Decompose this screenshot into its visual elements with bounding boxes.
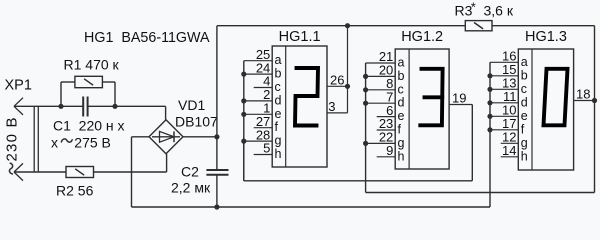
svg-text:d: d <box>398 96 405 110</box>
HG1.3 letter/digit divider <box>531 49 533 170</box>
svg-text:HG1.3: HG1.3 <box>525 29 567 45</box>
svg-text:3,6 к: 3,6 к <box>484 3 514 19</box>
XP1 pin 2 (bottom plug pin arrow) <box>14 163 23 180</box>
wire bottom mains from R2 to bridge bottom <box>94 171 167 173</box>
svg-text:h: h <box>521 149 528 163</box>
wire bridge top corner to mains top wire <box>165 106 167 120</box>
node HG1.1 pin 28 junction <box>241 139 246 144</box>
svg-text:5: 5 <box>263 141 270 156</box>
svg-text:c: c <box>275 80 281 94</box>
svg-text:3: 3 <box>328 99 335 114</box>
wire pins 26,3 common up to top bus <box>347 26 349 113</box>
HG1.1 pin 24 segment b wire <box>244 73 272 75</box>
capacitor C1 <box>83 97 87 117</box>
node HG1.1 pin 1 junction <box>241 112 246 117</box>
HG1.2 pin 19 wire <box>449 104 472 106</box>
wire top mains from C1 right plate to bridge <box>88 105 166 107</box>
digit 0 in HG1.3 <box>544 69 568 126</box>
wire bridge plus output to smoothing node <box>183 136 217 138</box>
HG1.1 letter/digit divider <box>285 46 287 167</box>
HG1.1 pin ladder vertical <box>243 61 245 181</box>
svg-text:HG1.2: HG1.2 <box>401 29 443 45</box>
wire vertical from top wire down to C2 <box>216 26 218 170</box>
HG1.1 pin 1 segment e wire <box>244 113 272 115</box>
node HG1.2 pin 20 junction <box>363 74 368 79</box>
svg-text:a: a <box>398 56 405 70</box>
svg-text:d: d <box>275 93 282 107</box>
display block HG1.2 box <box>395 49 449 169</box>
HG1.3 pin 12 segment g stub <box>501 142 519 144</box>
digit 3 in HG1.2 <box>420 69 442 126</box>
HG1.2 pin 8 segment c wire <box>366 89 396 91</box>
HG1.1 pin 25 segment a wire <box>244 60 272 62</box>
capacitor C2 <box>206 170 228 175</box>
HG1.1 pin 2 segment d wire <box>244 100 272 102</box>
svg-text:C2: C2 <box>181 163 199 179</box>
HG1.3 pin 13 segment c wire <box>490 88 518 90</box>
node HG1.1 pin 2 junction <box>241 98 246 103</box>
svg-text:b: b <box>521 68 528 82</box>
svg-text:х: х <box>51 135 58 151</box>
HG1.1 pin 26 wire <box>327 85 348 87</box>
XP1 pin 1 (top plug pin arrow) <box>14 98 23 115</box>
svg-text:VD1: VD1 <box>178 97 205 113</box>
HG1.1 pin 27 segment f stub <box>254 127 273 129</box>
resistor R3 <box>465 21 492 31</box>
HG1.2 pin 23 segment f stub <box>377 129 396 131</box>
svg-text:b: b <box>398 69 405 83</box>
svg-text:g: g <box>521 136 528 150</box>
HG1.2 pin 20 segment b wire <box>366 75 396 77</box>
diode inside VD1 <box>152 131 180 142</box>
top bus wire from vertical to R3 <box>217 25 465 27</box>
node HG1.1 pin 24 junction <box>241 72 246 77</box>
node HG1.2 pin 22 junction <box>363 141 368 146</box>
HG1.1 pin 28 segment g wire <box>244 140 272 142</box>
svg-text:e: e <box>521 109 528 123</box>
svg-text:R2 56: R2 56 <box>56 183 94 199</box>
svg-text:g: g <box>275 134 282 148</box>
node junction plus wire / vertical to R3 <box>214 134 219 139</box>
svg-text:230 В: 230 В <box>3 116 20 161</box>
svg-text:a: a <box>521 55 528 69</box>
svg-text:HG1 BA56-11GWA: HG1 BA56-11GWA <box>84 30 210 46</box>
node HG1.3 pin 11 junction <box>487 100 492 105</box>
HG1.3 pin 10 segment e wire <box>490 115 518 117</box>
resistor R1 branch wire left <box>61 82 75 106</box>
svg-text:h: h <box>398 149 405 163</box>
svg-text:b: b <box>275 67 282 81</box>
HG1.2 pin 7 segment d wire <box>366 102 396 104</box>
svg-text:e: e <box>275 107 282 121</box>
svg-text:14: 14 <box>502 143 516 158</box>
HG1.3 pin ladder vertical <box>489 62 491 207</box>
svg-text:18: 18 <box>576 87 590 102</box>
HG1.3 pin 17 segment f wire <box>490 129 518 131</box>
node HG1.2 pin 8 junction <box>363 87 368 92</box>
node HG1.3 pin 15 junction <box>487 73 492 78</box>
node HG1.3 pin 10 junction <box>487 114 492 119</box>
node junction C2 / minus rail <box>214 204 219 209</box>
wire bottom mains from XP1 to R2 <box>14 171 66 173</box>
HG1.1 pin 3 wire <box>327 112 348 114</box>
XP1 plug body double line <box>34 106 38 172</box>
svg-text:a: a <box>275 53 282 67</box>
svg-text:XP1: XP1 <box>5 78 32 94</box>
svg-text:19: 19 <box>452 91 466 106</box>
svg-text:f: f <box>521 122 525 136</box>
HG1.3 pin 18 wire <box>574 100 595 102</box>
node junction top wire right of C1 <box>112 104 117 109</box>
svg-text:*: * <box>471 0 476 15</box>
resistor R2 <box>66 167 94 178</box>
HG1.2 pin 9 segment h stub <box>377 156 396 158</box>
node HG1.3 pin 17 junction <box>487 127 492 132</box>
wire bridge minus output left then down <box>132 137 150 207</box>
HG1.3 pin 14 segment h stub <box>501 156 519 158</box>
svg-text:2,2 мк: 2,2 мк <box>171 180 211 196</box>
node junction top bus / common vertical <box>345 23 350 28</box>
HG1.1 pin 4 segment c stub <box>254 87 273 89</box>
svg-text:f: f <box>398 123 402 137</box>
wire right edge vertical down to HG1.3 pin 18 and common rail <box>594 26 596 193</box>
node HG1.3 pin 13 junction <box>487 87 492 92</box>
HG1.3 pin 11 segment d wire <box>490 102 518 104</box>
svg-text:e: e <box>398 109 405 123</box>
svg-text:h: h <box>275 147 282 161</box>
top bus wire from R3 to right edge <box>492 25 595 27</box>
svg-text:f: f <box>275 120 279 134</box>
svg-text:C1 220 н х: C1 220 н х <box>53 118 125 134</box>
svg-text:g: g <box>398 136 405 150</box>
wire rail from HG1.1 ladder to HG1.2 pin 19 <box>244 105 472 181</box>
svg-text:HG1.1: HG1.1 <box>279 29 321 45</box>
node junction pin 18 <box>592 98 597 103</box>
bridge rectifier VD1 diamond <box>149 120 183 154</box>
svg-text:c: c <box>398 82 404 96</box>
digit 2 in HG1.1 <box>295 68 318 126</box>
resistor R1 <box>75 76 103 87</box>
display block HG1.3 box <box>518 49 573 170</box>
svg-text:DB107: DB107 <box>175 114 218 130</box>
HG1.2 pin ladder vertical <box>365 63 367 193</box>
HG1.3 pin 16 segment a wire <box>490 61 518 63</box>
wire from C2 bottom plate to minus rail <box>216 175 218 207</box>
HG1.2 pin 21 segment a wire <box>366 62 396 64</box>
HG1.2 pin 6 segment e stub <box>377 116 396 118</box>
HG1.3 pin 15 segment b wire <box>490 75 518 77</box>
HG1.1 pin 5 segment h stub <box>254 154 273 156</box>
node HG1.2 pin 7 junction <box>363 101 368 106</box>
minus rail wire <box>132 206 491 208</box>
svg-text:9: 9 <box>386 143 393 158</box>
node junction top wire left of C1 <box>58 104 63 109</box>
HG1.2 letter/digit divider <box>408 49 410 169</box>
wire top mains from XP1 to C1 left plate <box>14 105 83 107</box>
svg-text:c: c <box>521 82 527 96</box>
svg-text:d: d <box>521 95 528 109</box>
wire bridge bottom corner to mains bottom wire <box>166 154 168 172</box>
wire common rail HG1.2 ladder to right edge <box>366 192 595 194</box>
HG1.2 pin 22 segment g wire <box>366 142 396 144</box>
svg-text:275 В: 275 В <box>74 135 111 151</box>
svg-text:26: 26 <box>330 72 344 87</box>
display block HG1.1 box <box>272 46 327 167</box>
node pin 26 junction <box>345 84 350 89</box>
svg-text:R1 470 к: R1 470 к <box>64 57 120 73</box>
resistor R1 branch wire right <box>102 82 115 106</box>
